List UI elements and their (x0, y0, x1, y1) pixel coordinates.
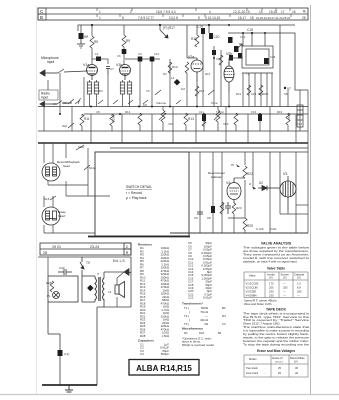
switch S15r diagonal (176, 100, 181, 104)
svg-text:—: — (283, 283, 286, 286)
switch detail text (126, 185, 152, 200)
valve table (244, 272, 308, 298)
svg-text:T2: T2 (246, 72, 250, 76)
wire drop x252 (251, 33, 253, 46)
resistor R11 (80, 114, 90, 131)
svg-text:5: 5 (198, 16, 200, 20)
capacitor C20 (209, 33, 213, 39)
resistor R10 (168, 62, 172, 73)
ruler tick marks row C (97, 8, 290, 11)
arrow oscillator (236, 44, 242, 50)
wire mid rail C (38, 106, 308, 108)
svg-text:R25: R25 (247, 224, 253, 228)
svg-text:S8: S8 (284, 92, 288, 96)
svg-text:6.8: 6.8 (297, 286, 301, 290)
svg-text:C22: C22 (188, 296, 194, 300)
capacitor C24 can (297, 105, 303, 127)
labels V2 cluster (240, 35, 269, 96)
svg-text:(V): (V) (294, 359, 298, 363)
svg-text:head: head (58, 214, 65, 218)
svg-text:14: 14 (259, 10, 263, 14)
ruler frame top (38, 8, 308, 20)
svg-text:6Vd: 6Vd (199, 331, 205, 335)
capacitor C10 blob (138, 57, 143, 62)
record/playback head (42, 163, 60, 181)
svg-text:C15: C15 (216, 57, 222, 61)
wire bottom bus (heavy) (42, 384, 97, 386)
switch S12r diagonal (128, 100, 133, 104)
svg-text:S10r: S10r (78, 145, 84, 149)
svg-text:R22: R22 (247, 172, 253, 176)
svg-text:C4: C4 (140, 352, 144, 356)
svg-text:19 21: 19 21 (52, 245, 61, 249)
svg-text:1M: 1M (181, 87, 186, 91)
svg-text:(V): (V) (283, 276, 287, 280)
resistor R20b (259, 85, 263, 95)
resistor R26 (286, 113, 291, 131)
svg-text:265: 265 (297, 290, 302, 294)
capacitor C25 (225, 202, 231, 214)
svg-text:1: 1 (99, 16, 101, 20)
resistors value list (138, 243, 170, 357)
svg-text:C16: C16 (251, 110, 257, 114)
ruler tick marks row B (97, 14, 291, 17)
svg-text:B4: B4 (222, 306, 226, 310)
svg-text:VR2: VR2 (223, 122, 229, 126)
switch S3r diagonal (75, 98, 81, 104)
svg-text:V1b: V1b (116, 63, 122, 67)
wire drop x187 (186, 25, 188, 58)
diode D1 (174, 79, 181, 86)
svg-text:VR1: VR1 (168, 122, 174, 126)
svg-text:C30: C30 (59, 266, 65, 270)
switch S7r diagonal (98, 100, 103, 104)
jack radio input (40, 101, 72, 107)
erase head (42, 207, 60, 225)
svg-text:Wow and flutter 0.2%.: Wow and flutter 0.2%. (244, 302, 272, 306)
svg-text:indicator: indicator (211, 175, 222, 179)
svg-text:C5: C5 (146, 89, 150, 93)
svg-text:L4: L4 (171, 76, 175, 80)
capacitor C1 (79, 33, 84, 39)
wire L-drop bottom left (48, 302, 60, 385)
svg-text:a: a (249, 182, 251, 186)
svg-text:28: 28 (43, 251, 47, 255)
resistor R14 100k (110, 114, 116, 131)
switch S2p (68, 123, 74, 128)
svg-text:19,18: 19,18 (269, 10, 277, 14)
wire grid row V1a (92, 59, 108, 64)
fuse arrow F1 (160, 30, 168, 38)
svg-text:ALBA R14,R15: ALBA R14,R15 (136, 364, 192, 373)
svg-text:Transformers*: Transformers* (182, 302, 204, 306)
switch S14r diagonal (143, 100, 148, 104)
svg-text:V4: V4 (226, 181, 230, 185)
svg-text:C8: C8 (207, 216, 211, 220)
microphone input label (41, 56, 59, 64)
svg-text:R5: R5 (94, 40, 98, 44)
capacitor C21 blob (228, 37, 233, 43)
svg-text:D4: D4 (222, 314, 226, 318)
resistor R24 (220, 202, 224, 214)
ruler numbers row B (99, 16, 306, 20)
svg-text:4 13,14,15: 4 13,14,15 (205, 16, 220, 20)
jack microphone (40, 69, 87, 76)
svg-text:C18: C18 (251, 92, 257, 96)
svg-text:R10: R10 (172, 65, 178, 69)
svg-text:470k: 470k (287, 113, 291, 120)
svg-text:Model: Model (249, 357, 257, 361)
svg-text:R: R (126, 251, 129, 255)
speaker LS (115, 282, 125, 298)
wire drop x160 (159, 25, 161, 30)
svg-text:SWITCH DETAIL: SWITCH DETAIL (126, 185, 152, 189)
svg-text:1: 1 (99, 10, 101, 14)
valve V3 (272, 176, 296, 210)
svg-text:—: — (297, 294, 300, 297)
svg-text:—: — (283, 291, 286, 294)
wires head1 (44, 143, 110, 196)
resistor R6 + capacitor C5 hatched pair under V1b (120, 82, 131, 94)
capacitor C6 (197, 212, 203, 214)
wire mid rail D (84, 113, 308, 115)
svg-text:R17: R17 (169, 26, 175, 30)
svg-text:R21: R21 (236, 92, 242, 96)
svg-text:R9: R9 (126, 39, 130, 43)
svg-text:17: 17 (281, 10, 285, 14)
svg-text:C14: C14 (197, 25, 203, 29)
svg-text:D1: D1 (184, 331, 188, 335)
svg-text:L3: L3 (108, 290, 112, 294)
svg-text:input: input (41, 96, 48, 100)
radio input label box (39, 90, 58, 100)
svg-text:Four-track: Four-track (246, 371, 259, 375)
wire bottom rail of schematic (170, 232, 308, 234)
wire drop x209 (208, 25, 210, 33)
switch S5r diagonal (155, 90, 161, 95)
wire V4 anode to R22 (234, 177, 245, 179)
capacitor C22 (258, 114, 262, 121)
svg-text:25: 25 (278, 366, 281, 370)
svg-text:r = Record: r = Record (126, 191, 142, 195)
svg-text:28: 28 (302, 16, 306, 20)
resistor R22 (243, 166, 247, 178)
wires V4 cathode net (228, 214, 245, 233)
wire drop x197 (196, 25, 198, 35)
ruler numbers row C (99, 10, 307, 15)
svg-text:T9: T9 (86, 261, 90, 265)
svg-text:C24: C24 (297, 122, 303, 126)
switch S13 (50, 196, 56, 200)
wire HT rail B (228, 33, 308, 90)
resistor R1 + capacitor C3 hatched pair under V1a (87, 82, 98, 94)
ruler left index boxes C and B (38, 8, 46, 14)
wire heavy box bottom (88, 236, 190, 238)
svg-text:r.m.s.): r.m.s.) (275, 359, 283, 363)
svg-text:255: 255 (283, 286, 288, 290)
diode D2 (258, 186, 272, 191)
svg-text:25: 25 (278, 371, 281, 375)
resistor R14 (195, 86, 199, 96)
svg-text:C18: C18 (247, 28, 253, 32)
svg-text:19,20,22,26,27,21,23,25,24: 19,20,22,26,27,21,23,25,24 (256, 16, 291, 20)
switch unit box (95, 152, 189, 236)
wires around V2 (187, 34, 300, 131)
resistor R23 (232, 203, 236, 214)
svg-text:(V): (V) (297, 276, 301, 280)
resistor R25 (243, 218, 247, 230)
svg-text:1.5: 1.5 (297, 282, 301, 286)
svg-text:C19: C19 (258, 92, 264, 96)
record level indicator label (208, 171, 225, 179)
resistor R28 (50, 281, 54, 292)
svg-text:S1r: S1r (63, 101, 68, 105)
svg-text:(F1): (F1) (163, 26, 169, 30)
junction dot C18 (251, 32, 253, 34)
svg-text:C2: C2 (222, 322, 226, 326)
svg-text:97: 97 (287, 87, 291, 91)
svg-text:Valve Table: Valve Table (267, 267, 285, 271)
svg-text:C6: C6 (194, 216, 198, 220)
junction dot 97 (284, 87, 286, 89)
wire double feed lines to right (110, 148, 308, 152)
switch S1r (68, 99, 74, 104)
svg-text:5: 5 (122, 16, 124, 20)
capacitor C19 blob (238, 53, 242, 59)
inductor L2 (96, 57, 101, 62)
svg-text:T3 {: T3 { (184, 322, 189, 326)
capacitor C14 (201, 28, 205, 34)
svg-text:C9: C9 (138, 52, 142, 56)
svg-text:S2p: S2p (62, 124, 68, 128)
svg-text:R4: R4 (163, 72, 167, 76)
resistor R9 (122, 25, 126, 65)
svg-text:R28: R28 (140, 334, 146, 338)
svg-text:C8: C8 (96, 110, 100, 114)
wire cathode cluster verticals (60, 59, 170, 107)
capacitor C30 (58, 269, 72, 275)
wire mains top (38, 256, 131, 258)
svg-text:R15: R15 (205, 72, 211, 76)
svg-text:(L2): (L2) (64, 352, 69, 356)
svg-text:B1: B1 (218, 331, 222, 335)
svg-text:Tone: Tone (211, 101, 218, 105)
wire drop x265 (264, 33, 266, 46)
valve V2a (191, 58, 203, 82)
svg-text:C A B: C A B (256, 227, 264, 231)
svg-text:V2a: V2a (188, 55, 194, 59)
svg-text:0.01μF: 0.01μF (203, 296, 212, 300)
svg-text:Erase and Bias Voltages: Erase and Bias Voltages (257, 349, 295, 353)
volume pot VR1 (156, 101, 166, 131)
arrow m (236, 164, 240, 167)
ground bottom (65, 385, 73, 392)
resistor R27 vertical (202, 116, 206, 126)
capacitor C22 blob (229, 55, 233, 61)
svg-text:18: 18 (250, 16, 254, 20)
svg-text:36: 36 (295, 371, 298, 375)
svg-text:7,6 9 12 77: 7,6 9 12 77 (138, 16, 154, 20)
resistor R12 (138, 113, 142, 131)
lamp box (48, 276, 78, 302)
junction dots mid rails (59, 106, 261, 116)
node a arrow (252, 186, 256, 190)
wires below V3 (280, 196, 308, 214)
svg-text:D2: D2 (259, 181, 263, 185)
tone pot VR2 (211, 101, 221, 131)
switch S10r (76, 145, 84, 150)
page left edge (36, 6, 38, 394)
svg-text:2: 2 (130, 10, 132, 14)
svg-text:16: 16 (292, 10, 296, 14)
inductor L21 (58, 350, 63, 356)
erase bias table (244, 355, 308, 377)
svg-text:500μF: 500μF (161, 352, 169, 356)
verticals right section (200, 90, 308, 233)
wires head2 (44, 196, 95, 233)
valve V4 magic eye (227, 178, 241, 203)
svg-text:Two-track: Two-track (246, 366, 258, 370)
junction dots V2 cluster (213, 24, 266, 59)
svg-text:220: 220 (221, 203, 225, 208)
svg-text:4: 4 (209, 10, 211, 14)
svg-text:250: 250 (269, 290, 274, 294)
svg-text:C2: C2 (84, 35, 88, 39)
svg-text:V1 ECC83: V1 ECC83 (246, 282, 259, 286)
svg-text:100k: 100k (112, 115, 116, 122)
rectifier M1 (87, 285, 94, 292)
svg-text:C6: C6 (117, 54, 121, 58)
ruler row letters (40, 9, 44, 20)
wire chassis bus (heavy) (38, 142, 308, 144)
svg-text:10,2 8: 10,2 8 (169, 16, 178, 20)
svg-text:PL: PL (47, 294, 51, 298)
svg-text:..: .. (264, 367, 266, 370)
svg-text:m: m (231, 163, 234, 167)
svg-text:170: 170 (269, 282, 274, 286)
switch S6r diagonal (208, 90, 214, 95)
svg-text:23-24: 23-24 (90, 245, 99, 249)
svg-text:playback, on track 4 with no s: playback, on track 4 with no signal inpu… (243, 259, 298, 263)
capacitor C28 (264, 58, 269, 64)
capacitor C23 blob (234, 46, 239, 52)
capacitor C12 blob (150, 57, 155, 62)
svg-text:16,17: 16,17 (238, 16, 246, 20)
junction dot on rail A x160 (159, 24, 161, 26)
fuse F2 (80, 257, 84, 276)
resistor R8 (185, 62, 189, 73)
svg-text:C13: C13 (240, 35, 246, 39)
svg-text:R18: R18 (191, 37, 197, 41)
page right edge (310, 5, 312, 394)
svg-text:500μF is overload model.: 500μF is overload model. (182, 343, 215, 347)
svg-text:C11: C11 (199, 110, 204, 114)
svg-text:V1a: V1a (83, 63, 89, 67)
wire drop x243 (242, 33, 244, 46)
svg-text:V2 ECL86: V2 ECL86 (246, 286, 259, 290)
svg-text:C20: C20 (214, 35, 220, 39)
svg-text:12,11,20,15: 12,11,20,15 (233, 10, 250, 14)
svg-text:T: T (97, 273, 99, 277)
svg-text:R28: R28 (46, 281, 52, 285)
svg-text:R11: R11 (84, 117, 90, 121)
svg-text:input: input (47, 60, 54, 64)
capacitor C8 electrolytic (211, 206, 215, 213)
svg-text:30: 30 (295, 366, 298, 370)
svg-text:16,5 7 8 5 4,3: 16,5 7 8 5 4,3 (156, 10, 176, 14)
svg-text:0,6Ω: 0,6Ω (270, 227, 277, 231)
svg-text:S13: S13 (44, 197, 50, 201)
resistor R15b (219, 55, 223, 65)
valve V1b (120, 65, 131, 81)
svg-text:Record Bias: Record Bias (290, 356, 305, 360)
svg-text:V3: V3 (283, 172, 287, 176)
tiny value labels top band (84, 35, 288, 96)
svg-text:To stop the tape during record: To stop the tape during recording use th… (243, 342, 309, 346)
svg-text:1.5kΩ: 1.5kΩ (161, 334, 169, 338)
wires transformer loop (82, 257, 131, 385)
svg-text:R19: R19 (277, 110, 283, 114)
wire drop x280 (279, 25, 281, 107)
junction dot on rail A x92 (91, 24, 93, 26)
svg-text:R3: R3 (99, 89, 103, 93)
wire HT rail A (78, 25, 295, 31)
mains transformer T1 (95, 277, 104, 301)
svg-text:V4 EM84: V4 EM84 (246, 293, 258, 297)
resistor R5 (90, 25, 94, 65)
svg-text:C7: C7 (110, 67, 114, 71)
valve V1a (87, 65, 98, 81)
ground below C1 (77, 44, 85, 48)
resistor R20 (234, 113, 238, 131)
page bottom edge (0, 394, 339, 396)
svg-text:B: B (40, 15, 43, 20)
capacitor C11 (202, 114, 206, 121)
wire ground rail E (38, 130, 308, 132)
svg-text:C28: C28 (270, 55, 276, 59)
resistor R16b (247, 85, 251, 95)
svg-text:p = Play back: p = Play back (126, 196, 147, 200)
svg-text:Volume: Volume (156, 101, 166, 105)
svg-text:C: C (126, 245, 129, 249)
svg-text:L2: L2 (95, 52, 99, 56)
svg-text:R23: R23 (236, 206, 242, 210)
svg-text:..: .. (264, 372, 266, 375)
capacitor C17 blob (212, 50, 216, 55)
svg-text:R13: R13 (188, 117, 194, 121)
svg-text:(V): (V) (269, 276, 273, 280)
resistor R18 (195, 35, 199, 47)
pilot lamp PL (53, 292, 60, 299)
svg-text:Valve: Valve (249, 274, 256, 278)
svg-text:230: 230 (269, 293, 274, 297)
resistor R13 (184, 113, 194, 131)
svg-text:R12: R12 (125, 110, 131, 114)
svg-text:Ext. L.S.: Ext. L.S. (113, 259, 126, 263)
valve V2b (224, 62, 234, 92)
capacitor C9 blob (122, 49, 127, 54)
capacitor C7 (106, 67, 110, 76)
tiny value labels mid band (53, 102, 303, 126)
junction dot on rail A x209 (208, 24, 210, 26)
switch S11p (84, 165, 90, 170)
wire speaker top (48, 257, 131, 307)
svg-text:R14: R14 (199, 89, 205, 93)
left verticals to rails (44, 80, 296, 143)
svg-text:255: 255 (269, 286, 274, 290)
output transformer T2 nested box (242, 46, 273, 73)
svg-text:V3 EZ80: V3 EZ80 (246, 290, 257, 294)
